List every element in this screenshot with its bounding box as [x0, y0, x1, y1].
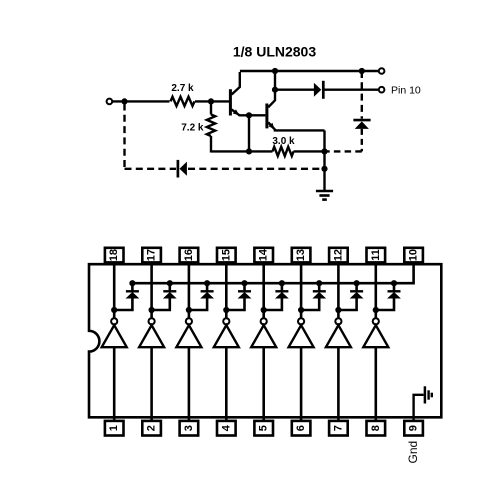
svg-text:2.7 k: 2.7 k	[171, 83, 194, 94]
pin 8	[367, 421, 386, 436]
inverter U1H	[363, 310, 388, 347]
svg-text:7.2 k: 7.2 k	[181, 122, 204, 133]
svg-text:7: 7	[332, 425, 344, 431]
pin 1	[105, 421, 124, 436]
pin 2	[142, 421, 161, 436]
diode D2	[314, 81, 323, 99]
pin 16	[180, 248, 199, 263]
terminal Pin 10	[379, 87, 385, 93]
wire dashed D3 to bottom	[361, 129, 363, 152]
svg-text:13: 13	[295, 249, 307, 261]
node output 7	[335, 307, 341, 313]
pin 10	[404, 248, 423, 263]
wire pin 13 to node	[300, 264, 303, 311]
diode D4	[114, 283, 139, 310]
wire D2 to Pin10 terminal	[325, 88, 379, 90]
inverter U1A	[102, 310, 127, 347]
svg-text:3.0 k: 3.0 k	[272, 136, 295, 147]
svg-text:15: 15	[220, 249, 232, 261]
pin 5	[254, 421, 273, 436]
node input junction	[121, 98, 127, 104]
ground pin 9	[414, 386, 432, 421]
svg-text:4: 4	[220, 424, 232, 431]
svg-text:Pin 10: Pin 10	[391, 85, 421, 97]
pin 3	[180, 421, 199, 436]
wire dashed top right vertical	[361, 71, 363, 119]
input terminal	[107, 99, 113, 105]
inverter U1D	[214, 310, 239, 347]
wire pin 6 to inverter	[300, 347, 303, 421]
wire dashed to ground node	[327, 150, 362, 152]
wire pin 7 to inverter	[337, 347, 340, 421]
pin 9	[404, 421, 423, 436]
diode D1	[178, 160, 187, 178]
node rail tap 4	[241, 280, 247, 286]
inverter U1E	[251, 310, 276, 347]
svg-text:8: 8	[370, 425, 382, 431]
wire to ground	[323, 151, 325, 190]
wire pin 17 to node	[150, 264, 153, 311]
wire pin 12 to node	[337, 264, 340, 311]
node Q1 emitter junction	[246, 112, 252, 118]
pin 7	[329, 421, 348, 436]
diode D9	[301, 283, 326, 310]
svg-text:14: 14	[258, 248, 270, 261]
wire pin 3 to inverter	[188, 347, 191, 421]
node rail tap 7	[354, 280, 360, 286]
node output 1	[111, 307, 117, 313]
wire pin 11 to node	[374, 264, 377, 311]
terminal top right	[379, 68, 385, 74]
wire pin 8 to inverter	[374, 347, 377, 421]
pin 13	[292, 248, 311, 263]
node rail tap 2	[167, 280, 173, 286]
resistor R2 7.2k	[181, 101, 215, 152]
svg-text:9: 9	[408, 425, 420, 431]
svg-text:3: 3	[183, 425, 195, 431]
diode D10	[338, 283, 363, 310]
node bottom rail left	[246, 148, 252, 154]
svg-text:Gnd: Gnd	[406, 441, 420, 464]
wire pin 15 to node	[225, 264, 228, 311]
wire COM rail to pin 10	[132, 264, 413, 284]
svg-text:16: 16	[183, 249, 195, 261]
inverter U1C	[176, 310, 201, 347]
diode D5	[152, 283, 177, 310]
svg-text:18: 18	[108, 249, 120, 261]
node base junction	[208, 98, 214, 104]
wire emitter drop	[323, 130, 325, 151]
diode D11	[376, 283, 401, 310]
wire dashed D1 to ground node	[188, 168, 323, 170]
svg-text:1/8 ULN2803: 1/8 ULN2803	[233, 43, 316, 59]
wire Q2 collector to D2	[275, 88, 314, 90]
node Q2 collector junction	[272, 87, 278, 93]
svg-text:6: 6	[295, 425, 307, 431]
node output 8	[373, 307, 379, 313]
wire pin 16 to node	[188, 264, 191, 311]
node rail tap 3	[204, 280, 210, 286]
IC body	[89, 264, 441, 417]
wire pin 5 to inverter	[262, 347, 265, 421]
diode D8	[264, 283, 289, 310]
diode D7	[226, 283, 251, 310]
svg-text:11: 11	[370, 249, 382, 261]
node output 2	[149, 307, 155, 313]
wire Q1 emitter to bottom rail	[248, 115, 250, 151]
resistor R1 2.7k	[171, 83, 195, 106]
resistor R3 3.0k and bottom rail	[211, 136, 325, 156]
node rail tap 5	[279, 280, 285, 286]
wire pin 18 to node	[113, 264, 116, 311]
pin 18	[105, 248, 124, 263]
svg-text:5: 5	[258, 425, 270, 431]
inverter U1B	[139, 310, 164, 347]
diode D3	[353, 120, 370, 129]
wire dashed from input node down	[123, 104, 125, 169]
wire dashed to D1	[125, 168, 177, 170]
node rail tap 1	[129, 280, 135, 286]
pin 4	[217, 421, 236, 436]
wire pin 14 to node	[262, 264, 265, 311]
node output 4	[223, 307, 229, 313]
svg-text:12: 12	[332, 249, 344, 261]
wire R1 to Q1 base	[195, 100, 229, 102]
pin 12	[329, 248, 348, 263]
wire pin 2 to inverter	[150, 347, 153, 421]
svg-text:1: 1	[108, 425, 120, 431]
transistor Q2	[249, 72, 325, 130]
node rail tap 8	[391, 280, 397, 286]
svg-text:10: 10	[408, 249, 420, 261]
node output 3	[186, 307, 192, 313]
inverter U1G	[326, 310, 351, 347]
node bottom rail right	[321, 148, 327, 154]
pin 17	[142, 248, 161, 263]
diode D6	[189, 283, 214, 310]
node top rail left	[272, 68, 278, 74]
transistor Q1	[230, 72, 249, 116]
inverter U1F	[289, 310, 314, 347]
node top rail right	[359, 68, 365, 74]
pin 14	[254, 248, 273, 263]
svg-text:17: 17	[146, 249, 158, 261]
wire collector rail top	[240, 70, 379, 72]
pin 15	[217, 248, 236, 263]
node output 6	[298, 307, 304, 313]
wire input to R1	[112, 100, 169, 102]
pin 6	[292, 421, 311, 436]
wire pin 1 to inverter	[113, 347, 116, 421]
pin 11	[367, 248, 386, 263]
ground	[316, 191, 333, 200]
svg-text:2: 2	[146, 425, 158, 431]
node output 5	[261, 307, 267, 313]
node dashed return junction	[321, 166, 327, 172]
node rail tap 6	[316, 280, 322, 286]
wire pin 4 to inverter	[225, 347, 228, 421]
